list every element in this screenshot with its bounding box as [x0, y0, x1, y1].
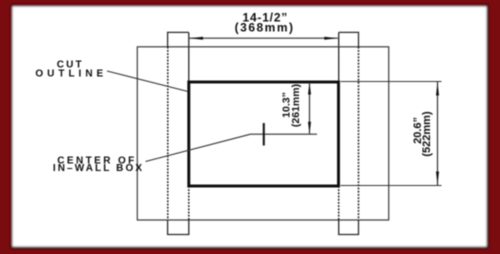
left stud right edge hidden (dashed)	[188, 186, 190, 220]
right stud right edge hidden (dashed)	[358, 47, 360, 220]
svg-text:(368mm): (368mm)	[235, 20, 295, 34]
height dim top arrowhead	[436, 82, 439, 95]
center mark tick	[263, 123, 265, 146]
svg-text:(522mm): (522mm)	[421, 111, 433, 157]
width dim left arrowhead	[190, 37, 203, 40]
width dimension line 14-1/2	[190, 37, 338, 39]
right stud top cap	[339, 32, 359, 46]
inner dim top arrowhead	[308, 83, 311, 95]
wall outline rectangle	[137, 47, 388, 220]
svg-text:IN–WALL BOX: IN–WALL BOX	[53, 163, 144, 174]
right stud left edge upper solid	[338, 32, 340, 82]
svg-text:OUTLINE: OUTLINE	[35, 69, 107, 80]
inner dimension line 10.3	[309, 83, 311, 134]
right stud left edge hidden (dashed)	[338, 186, 340, 220]
height dim bottom arrowhead	[436, 172, 439, 185]
left stud left edge hidden (dashed)	[167, 47, 169, 220]
left stud right edge upper solid	[188, 32, 190, 82]
left stud bottom cap	[168, 220, 189, 235]
right side extension line bottom	[341, 185, 442, 187]
right side extension line top	[341, 81, 442, 83]
cut outline thick rectangle	[189, 82, 339, 186]
leader line for CUT OUTLINE	[107, 71, 188, 92]
left stud top cap	[168, 32, 189, 46]
width dim right arrowhead	[324, 37, 337, 40]
leader line for CENTER OF IN-WALL BOX	[146, 134, 251, 161]
height dimension line 20.6	[437, 82, 439, 185]
svg-text:(261mm): (261mm)	[290, 84, 302, 127]
inner dim bottom arrowhead	[308, 122, 311, 134]
right stud bottom cap	[339, 220, 359, 235]
center reference line	[250, 133, 317, 135]
